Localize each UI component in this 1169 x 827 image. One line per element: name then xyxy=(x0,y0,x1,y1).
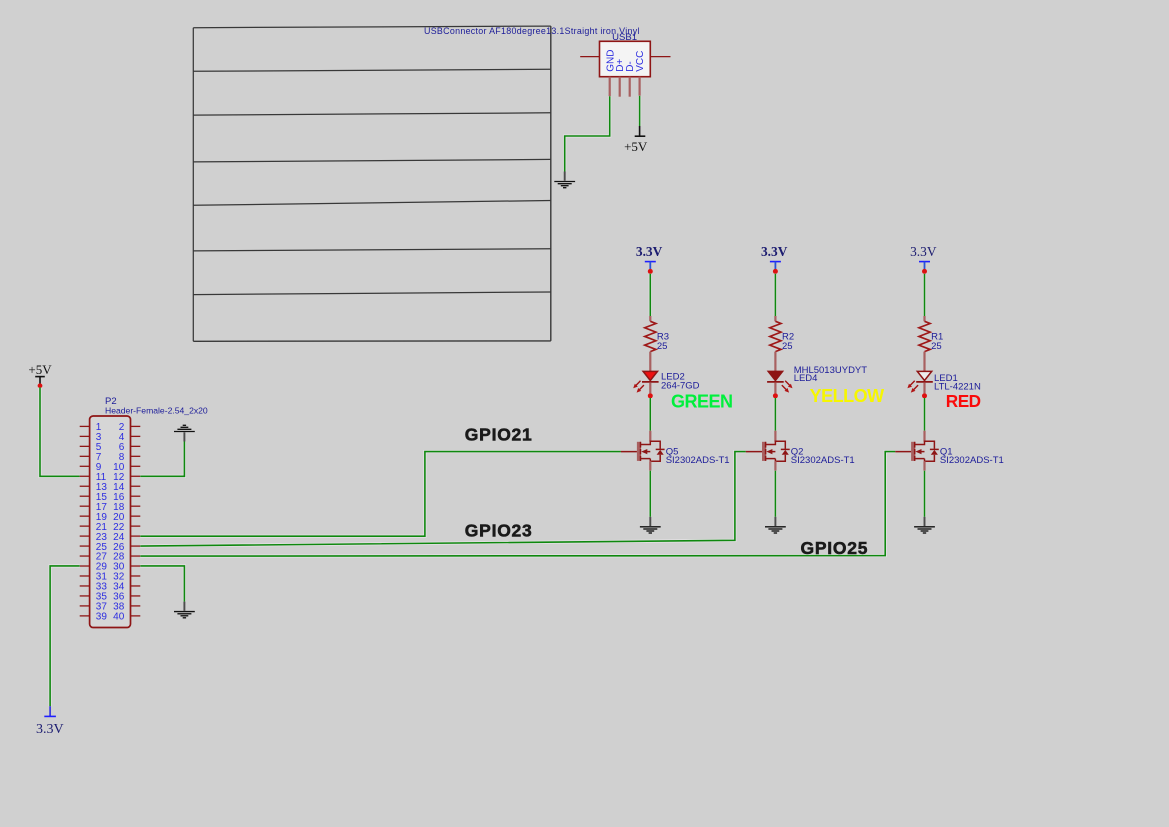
P2 pin 19 xyxy=(80,515,90,517)
P2 pin 11 xyxy=(80,475,90,477)
ground below USB xyxy=(554,172,575,188)
junction dot +5V xyxy=(38,383,43,388)
graphic box with 7 rows xyxy=(193,26,551,341)
svg-text:+5V: +5V xyxy=(624,139,648,154)
svg-text:+5V: +5V xyxy=(28,362,52,377)
power +5V (left) xyxy=(28,362,52,384)
wire 3.3V to R3 xyxy=(649,274,652,316)
P2 pin 32 xyxy=(131,575,141,577)
P2 pin 28 xyxy=(131,555,141,557)
connector P2 body xyxy=(90,416,131,628)
wire 3.3V to R2 xyxy=(774,274,777,316)
svg-text:USBConnector AF180degree13.1St: USBConnector AF180degree13.1Straight iro… xyxy=(424,26,640,36)
wire Q5 source to ground xyxy=(649,471,652,517)
ground below Q1 xyxy=(914,517,935,533)
P2 pin 27 xyxy=(80,555,90,557)
svg-text:3.3V: 3.3V xyxy=(636,244,663,259)
resistor R3 25 xyxy=(645,316,669,371)
P2 pin 34 xyxy=(131,585,141,587)
wire pin 12 to ground xyxy=(140,442,184,477)
wire GPIO21 (pin 24 to Q5 gate) xyxy=(140,452,621,537)
transistor Q5 SI2302ADS-T1 xyxy=(621,431,730,471)
ground at pin 30 xyxy=(174,602,195,618)
svg-text:SI2302ADS-T1: SI2302ADS-T1 xyxy=(940,455,1004,466)
svg-text:39: 39 xyxy=(96,612,108,623)
svg-text:3.3V: 3.3V xyxy=(910,244,937,259)
svg-text:264-7GD: 264-7GD xyxy=(661,381,700,392)
svg-text:25: 25 xyxy=(657,341,668,352)
LED LED4 MHL5013UYDYT xyxy=(767,365,867,393)
P2 pin 16 xyxy=(131,495,141,497)
svg-text:3.3V: 3.3V xyxy=(36,722,64,737)
P2 pin 39 xyxy=(80,615,90,617)
USB1 pin D+ xyxy=(619,77,621,97)
P2 pin 22 xyxy=(131,525,141,527)
wire +5V to pin 11 xyxy=(40,388,80,477)
USB1 pin GND xyxy=(609,77,611,97)
svg-text:RED: RED xyxy=(946,391,981,411)
P2 pin 8 xyxy=(131,455,141,457)
junction dot 3.3V Q2 xyxy=(773,269,778,274)
P2 pin 33 xyxy=(80,585,90,587)
wire GPIO23 (pin 26 to Q2 gate) xyxy=(140,452,746,546)
ground below Q2 xyxy=(765,517,786,533)
P2 pin 26 xyxy=(131,545,141,547)
wire Q1 source to ground xyxy=(923,471,926,517)
svg-text:GREEN: GREEN xyxy=(671,391,733,411)
USB1 left pin xyxy=(580,56,599,58)
svg-text:YELLOW: YELLOW xyxy=(810,386,885,406)
svg-text:Header-Female-2.54_2x20: Header-Female-2.54_2x20 xyxy=(105,406,208,416)
svg-text:SI2302ADS-T1: SI2302ADS-T1 xyxy=(791,455,855,466)
P2 pin 17 xyxy=(80,505,90,507)
wire 3.3V to R1 xyxy=(923,274,926,316)
ground (inverted) at pin 12 xyxy=(174,425,195,441)
svg-text:SI2302ADS-T1: SI2302ADS-T1 xyxy=(666,455,730,466)
P2 pin 3 xyxy=(80,435,90,437)
P2 pin 36 xyxy=(131,595,141,597)
LED LED2 264-7GD xyxy=(633,371,699,393)
P2 pin 14 xyxy=(131,485,141,487)
P2 pin 4 xyxy=(131,435,141,437)
resistor R1 25 xyxy=(919,316,943,371)
junction dot LED4 cathode xyxy=(773,393,778,398)
wire GPIO25 (pin 28 to Q1 gate) xyxy=(140,452,895,556)
wire USB GND to ground xyxy=(565,96,610,171)
P2 pin 38 xyxy=(131,605,141,607)
resistor R2 25 xyxy=(770,316,794,371)
svg-text:LED4: LED4 xyxy=(794,373,818,384)
svg-text:GPIO23: GPIO23 xyxy=(465,521,533,541)
transistor Q1 SI2302ADS-T1 xyxy=(895,431,1004,471)
junction dot LED2 cathode xyxy=(648,393,653,398)
P2 pin 30 xyxy=(131,565,141,567)
P2 pin 18 xyxy=(131,505,141,507)
P2 pin 12 xyxy=(131,475,141,477)
USB1 right pin xyxy=(650,56,670,58)
wire LED1 to Q1 drain xyxy=(923,398,926,431)
P2 pin 10 xyxy=(131,465,141,467)
P2 pin 23 xyxy=(80,535,90,537)
connector USB1 xyxy=(600,32,651,77)
P2 pin 20 xyxy=(131,515,141,517)
P2 pin 25 xyxy=(80,545,90,547)
power 3.3V (Q5 column) xyxy=(636,244,663,269)
power 3.3V (bottom left) xyxy=(36,706,64,737)
P2 pin 15 xyxy=(80,495,90,497)
wire LED4 to Q2 drain xyxy=(774,398,777,431)
USB1 pin VCC xyxy=(638,77,640,96)
svg-text:VCC: VCC xyxy=(635,51,646,72)
transistor Q2 SI2302ADS-T1 xyxy=(746,431,855,471)
P2 pin 24 xyxy=(131,535,141,537)
P2 pin 31 xyxy=(80,575,90,577)
wire Q2 source to ground xyxy=(774,471,777,517)
junction dot 3.3V Q5 xyxy=(648,269,653,274)
P2 pin 1 xyxy=(80,425,90,427)
USB1 pin D- xyxy=(629,77,631,97)
svg-text:25: 25 xyxy=(782,341,793,352)
P2 pin 6 xyxy=(131,445,141,447)
P2 pin 9 xyxy=(80,465,90,467)
P2 pin 40 xyxy=(131,615,141,617)
power +5V (USB) xyxy=(624,126,648,154)
P2 pin 35 xyxy=(80,595,90,597)
junction dot LED1 cathode xyxy=(922,393,927,398)
ground below Q5 xyxy=(640,517,661,533)
wire USB VCC to +5V xyxy=(638,96,641,126)
svg-text:25: 25 xyxy=(931,341,942,352)
LED LED1 LTL-4221N xyxy=(907,371,981,393)
wire 3.3V to pin 29 xyxy=(50,566,80,706)
power 3.3V (Q1 column) xyxy=(910,244,937,269)
power 3.3V (Q2 column) xyxy=(761,244,788,269)
P2 pin 13 xyxy=(80,485,90,487)
junction dot 3.3V Q1 xyxy=(922,269,927,274)
P2 pin 7 xyxy=(80,455,90,457)
svg-text:GPIO21: GPIO21 xyxy=(465,424,533,444)
wire pin 30 to ground xyxy=(140,566,184,602)
P2 pin 37 xyxy=(80,605,90,607)
svg-text:3.3V: 3.3V xyxy=(761,244,788,259)
P2 pin 5 xyxy=(80,445,90,447)
wire LED2 to Q5 drain xyxy=(649,398,652,431)
svg-text:GPIO25: GPIO25 xyxy=(801,538,869,558)
P2 pin 29 xyxy=(80,565,90,567)
svg-text:40: 40 xyxy=(113,612,125,623)
P2 pin 2 xyxy=(131,425,141,427)
P2 pin 21 xyxy=(80,525,90,527)
